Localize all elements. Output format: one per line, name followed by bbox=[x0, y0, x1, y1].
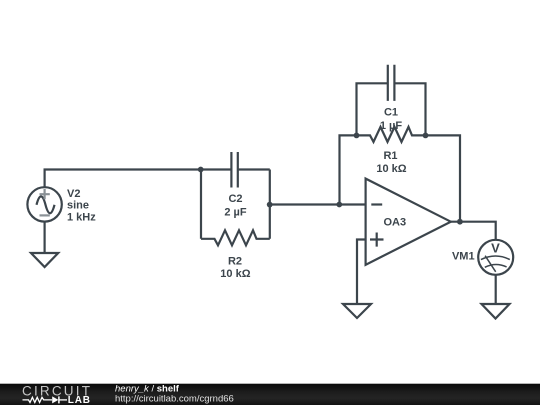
capacitor C2 bbox=[201, 152, 270, 188]
ground (op-amp) bbox=[343, 304, 371, 318]
voltmeter VM1 bbox=[478, 240, 513, 275]
svg-text:V2: V2 bbox=[67, 188, 80, 200]
wire V2 bottom to ground bbox=[43, 222, 45, 253]
node A junction bbox=[198, 167, 204, 173]
node D junction bbox=[354, 133, 360, 139]
wire output to voltmeter bbox=[450, 222, 496, 240]
svg-text:1 kHz: 1 kHz bbox=[67, 212, 96, 224]
svg-text:1 µF: 1 µF bbox=[380, 120, 403, 132]
svg-text:10 kΩ: 10 kΩ bbox=[220, 268, 250, 280]
wire noninverting input to ground bbox=[357, 240, 366, 305]
wire C2 left branch down bbox=[200, 170, 202, 239]
wire VM1 to ground bbox=[495, 275, 497, 304]
node E junction bbox=[423, 133, 429, 139]
svg-text:C2: C2 bbox=[228, 193, 242, 205]
svg-text:OA3: OA3 bbox=[384, 217, 407, 229]
svg-text:R2: R2 bbox=[228, 255, 242, 267]
label V2 bbox=[67, 188, 96, 224]
capacitor C1 bbox=[357, 65, 426, 136]
resistor R2 bbox=[201, 230, 270, 245]
node C junction bbox=[336, 202, 342, 208]
wire feedback left riser bbox=[340, 135, 357, 204]
wire node B to inverting input bbox=[270, 203, 366, 205]
svg-text:2 µF: 2 µF bbox=[224, 207, 247, 219]
label R2 bbox=[220, 255, 250, 280]
svg-text:R1: R1 bbox=[383, 150, 397, 162]
svg-text:V: V bbox=[491, 241, 500, 256]
label R1 bbox=[376, 150, 406, 175]
svg-text:C1: C1 bbox=[384, 107, 398, 119]
node F junction bbox=[457, 219, 463, 225]
op-amp OA3 bbox=[366, 179, 451, 265]
wire C2 right branch down bbox=[269, 170, 271, 239]
wire feedback right riser bbox=[426, 135, 461, 221]
svg-text:VM1: VM1 bbox=[452, 250, 475, 262]
svg-text:LAB: LAB bbox=[68, 395, 91, 405]
svg-text:10 kΩ: 10 kΩ bbox=[376, 163, 406, 175]
label C2 bbox=[224, 193, 247, 219]
footer bar bbox=[0, 384, 540, 405]
ground (V2) bbox=[31, 253, 58, 267]
ground (VM1) bbox=[482, 304, 510, 319]
label C1 bbox=[380, 107, 403, 132]
attribution text bbox=[115, 383, 234, 404]
wire V2 top to node A bbox=[45, 170, 201, 188]
svg-text:http://circuitlab.com/cgrnd66: http://circuitlab.com/cgrnd66 bbox=[115, 393, 234, 404]
voltage source V2 bbox=[27, 187, 61, 221]
resistor R1 bbox=[357, 127, 426, 142]
svg-text:sine: sine bbox=[67, 200, 89, 212]
CircuitLab logo bbox=[22, 383, 92, 405]
node B junction bbox=[267, 202, 273, 208]
